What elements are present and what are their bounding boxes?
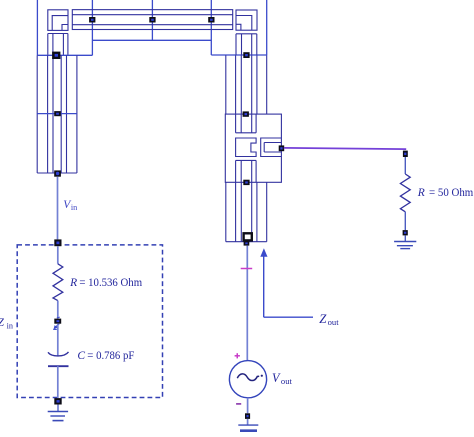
wire resistor to mid node bbox=[57, 301, 59, 319]
wire right horizontal at y=55 bbox=[211, 54, 266, 56]
Zout arrowhead bbox=[260, 248, 267, 256]
node dashed box bottom bbox=[54, 398, 61, 404]
node dashed box top bbox=[54, 239, 61, 246]
svg-text:Z: Z bbox=[319, 312, 327, 326]
wire node to capacitor bbox=[57, 324, 59, 357]
ground under load R bbox=[394, 242, 416, 249]
wire source bottom to node bbox=[247, 398, 249, 414]
microstrip line TL6 right arm lower bbox=[226, 182, 267, 241]
node load top bbox=[403, 151, 408, 157]
ground under source bbox=[238, 425, 258, 431]
svg-text:= 10.536 Ohm: = 10.536 Ohm bbox=[79, 277, 142, 289]
node left arm bottom bbox=[54, 170, 61, 176]
microstrip tee MTEE1 body box bbox=[225, 114, 281, 182]
wire capacitor to bottom node bbox=[57, 366, 59, 398]
svg-text:C: C bbox=[77, 350, 85, 362]
wire vertical x=211 from top bbox=[210, 0, 212, 55]
svg-text:R: R bbox=[417, 187, 425, 199]
node tee top bbox=[243, 111, 249, 116]
microstrip line TL1 vertical below left bend bbox=[48, 34, 68, 55]
wire vertical x=92 from top bbox=[91, 0, 93, 55]
svg-text:= 50 Ohm: = 50 Ohm bbox=[429, 187, 473, 199]
node between R and C bbox=[54, 319, 61, 324]
microstrip tee MTEE1 top stub bbox=[236, 114, 257, 133]
microstrip tee MTEE1 centre block bbox=[236, 138, 257, 157]
node at top arm x=152 bbox=[149, 17, 155, 23]
wire to load ground bbox=[404, 235, 406, 241]
wire source to ground bbox=[247, 419, 249, 425]
wire vertical x=152 from top bbox=[151, 0, 153, 40]
svg-text:Z: Z bbox=[0, 317, 5, 329]
microstrip tee MTEE1 bottom stub bbox=[236, 160, 257, 182]
svg-text:in: in bbox=[7, 321, 13, 330]
wire left arm mid junction bbox=[37, 113, 77, 115]
microstrip line TL2 top horizontal bbox=[72, 10, 232, 30]
wire V in from left arm bbox=[57, 177, 59, 240]
node tee right (purple feed) bbox=[279, 145, 285, 151]
Zout arrow bbox=[264, 254, 313, 318]
pin tick above node bbox=[57, 316, 60, 319]
ground under dashed box bbox=[48, 412, 68, 421]
dashed box Z in network bbox=[17, 245, 162, 398]
microstrip bend MBEND2 top-right bbox=[236, 10, 257, 30]
svg-text:R: R bbox=[69, 277, 77, 289]
node at top arm x=92 bbox=[89, 17, 95, 23]
wire top-left vertical bbox=[36, 0, 38, 55]
microstrip line TL3 vertical below right bend bbox=[236, 34, 257, 55]
purple feed line to load bbox=[284, 148, 406, 149]
wire to ground left bbox=[57, 405, 59, 412]
wire horizontal y=40 bbox=[92, 39, 211, 41]
capacitor C curved plate bbox=[48, 352, 69, 356]
wire vertical x=267 from top bbox=[266, 0, 268, 55]
capacitor C straight plate bbox=[48, 365, 69, 367]
resistor R 10.536 Ohm zigzag bbox=[53, 264, 63, 301]
resistor R 50 Ohm zigzag bbox=[400, 174, 410, 212]
microstrip line TL5 right arm upper bbox=[226, 55, 267, 114]
minus sign of source bbox=[236, 403, 241, 405]
magenta pin tick on wire bbox=[241, 268, 253, 270]
microstrip bend MBEND1 top-left bbox=[48, 10, 68, 31]
microstrip line TL4 left arm bbox=[37, 55, 77, 173]
svg-text:in: in bbox=[71, 203, 77, 212]
wire port2 to Vout source bbox=[246, 246, 248, 361]
svg-text:V: V bbox=[272, 371, 281, 385]
source V out circle bbox=[229, 361, 266, 398]
svg-text:= 0.786 pF: = 0.786 pF bbox=[87, 350, 134, 362]
svg-text:out: out bbox=[328, 317, 340, 327]
svg-text:out: out bbox=[281, 376, 293, 386]
node right arm top bbox=[243, 52, 249, 58]
node load bottom bbox=[403, 230, 408, 235]
node left arm top bbox=[52, 52, 60, 59]
port 2 open square bbox=[244, 233, 252, 240]
wire left horizontal at y=55 bbox=[37, 54, 92, 56]
Z in arrow tick bbox=[55, 324, 59, 328]
wire load bottom bbox=[404, 212, 406, 230]
wire node to resistor bbox=[57, 246, 59, 264]
wire load top bbox=[404, 157, 406, 174]
node tee bottom bbox=[243, 180, 249, 185]
node left arm middle bbox=[54, 111, 61, 116]
node at top arm x=211 bbox=[208, 17, 214, 23]
microstrip tee MTEE1 right stub bbox=[261, 138, 282, 157]
plus sign of source bbox=[235, 353, 240, 358]
node under source bbox=[245, 413, 250, 419]
node port 2 bbox=[244, 241, 250, 246]
